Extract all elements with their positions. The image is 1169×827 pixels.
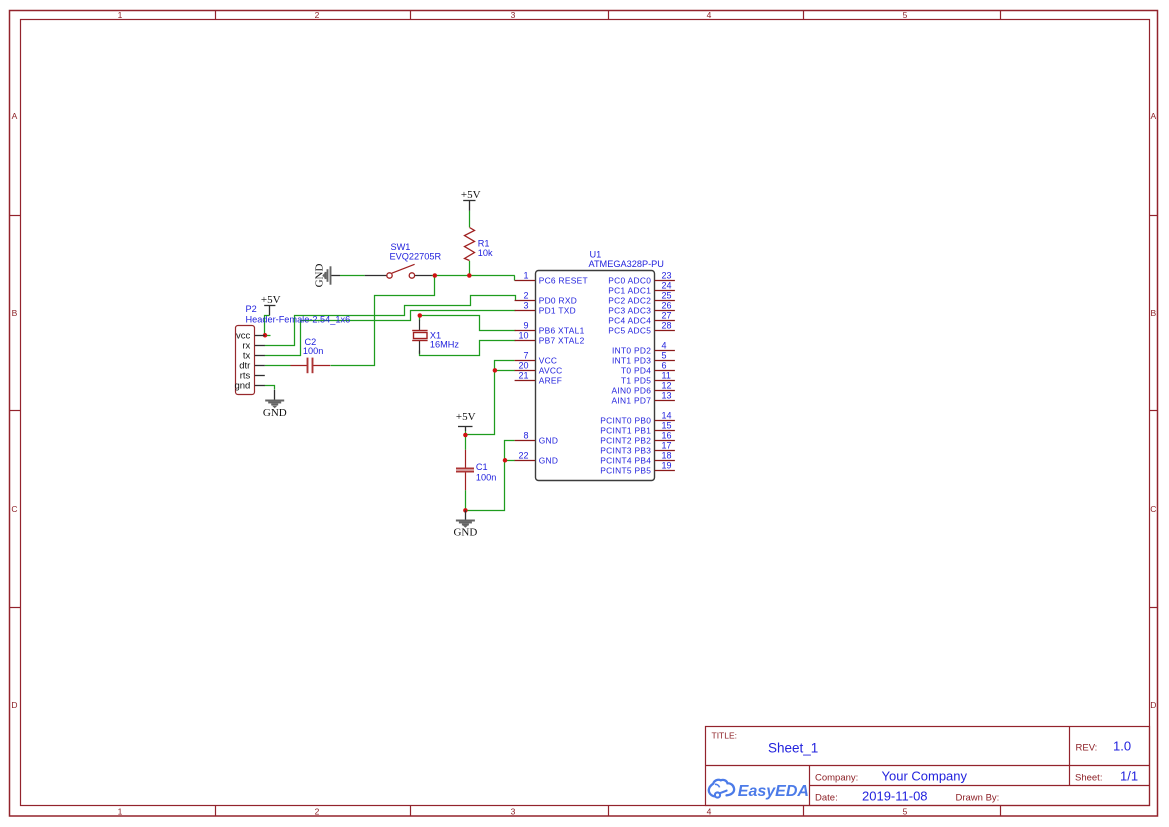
svg-text:Drawn By:: Drawn By:	[956, 793, 1000, 804]
svg-text:C1: C1	[476, 462, 488, 472]
svg-text:26: 26	[662, 301, 672, 311]
U1 pin 9 PB6 XTAL1	[515, 321, 585, 336]
svg-text:INT1 PD3: INT1 PD3	[612, 355, 651, 365]
svg-text:15: 15	[662, 421, 672, 431]
svg-text:VCC: VCC	[539, 355, 558, 365]
svg-text:GND: GND	[539, 455, 559, 465]
svg-text:4: 4	[662, 341, 667, 351]
svg-text:EasyEDA: EasyEDA	[738, 783, 809, 800]
svg-text:2: 2	[523, 291, 528, 301]
U1 pin 18 PCINT4 PB4	[600, 451, 675, 466]
svg-text:7: 7	[523, 351, 528, 361]
U1 pin 23 PC0 ADC0	[608, 271, 675, 286]
ground GND (below C1)	[453, 510, 477, 538]
svg-text:PC4 ADC4: PC4 ADC4	[608, 315, 651, 325]
svg-text:PC2 ADC2: PC2 ADC2	[608, 295, 651, 305]
resistor R1 10k	[465, 228, 494, 261]
svg-text:PC3 ADC3: PC3 ADC3	[608, 305, 651, 315]
U1 pin 28 PC5 ADC5	[608, 321, 675, 336]
U1 pin 16 PCINT2 PB2	[600, 431, 675, 446]
svg-text:4: 4	[707, 807, 712, 817]
EasyEDA logo	[709, 780, 809, 800]
wire: crystal bottom to PB7 XTAL2 (pin 10)	[420, 341, 516, 356]
wire: P2 gnd to GND	[265, 386, 275, 390]
svg-text:A: A	[12, 111, 18, 121]
svg-text:100n: 100n	[476, 472, 496, 482]
svg-text:28: 28	[662, 321, 672, 331]
svg-text:PC0 ADC0: PC0 ADC0	[608, 275, 651, 285]
title block values	[768, 739, 1138, 804]
switch SW1 EVQ22705R	[365, 242, 442, 278]
junction: crystal top node	[418, 313, 423, 318]
U1 pin 4 INT0 PD2	[612, 341, 675, 356]
svg-text:16: 16	[662, 431, 672, 441]
svg-text:Date:: Date:	[815, 793, 838, 804]
svg-text:18: 18	[662, 451, 672, 461]
svg-text:12: 12	[662, 381, 672, 391]
U1 pin 5 INT1 PD3	[612, 351, 675, 366]
wire: R1 bottom to RESET net	[469, 261, 471, 276]
svg-text:P2: P2	[246, 304, 257, 314]
power +5V (above C1)	[456, 411, 476, 431]
svg-text:1.0: 1.0	[1113, 739, 1131, 754]
svg-text:Your Company: Your Company	[882, 769, 968, 784]
svg-text:+5V: +5V	[456, 411, 476, 423]
svg-text:4: 4	[707, 10, 712, 20]
svg-text:3: 3	[523, 301, 528, 311]
svg-text:PCINT4 PB4: PCINT4 PB4	[600, 455, 651, 465]
svg-text:9: 9	[523, 321, 528, 331]
svg-text:AREF: AREF	[539, 375, 563, 385]
svg-text:Sheet_1: Sheet_1	[768, 740, 818, 755]
svg-text:14: 14	[662, 411, 672, 421]
wire: RESET net (switch/R1 to pin 1)	[340, 276, 515, 281]
U1 pin 3 PD1 TXD	[515, 301, 576, 316]
svg-text:D: D	[11, 700, 17, 710]
svg-text:B: B	[12, 308, 18, 318]
svg-text:GND: GND	[453, 527, 477, 539]
svg-text:GND: GND	[313, 264, 325, 288]
svg-text:INT0 PD2: INT0 PD2	[612, 345, 651, 355]
svg-text:23: 23	[662, 271, 672, 281]
wire: P2 vcc to +5V	[265, 316, 271, 336]
svg-text:U1: U1	[590, 250, 602, 260]
capacitor C1 100n	[456, 450, 496, 490]
svg-text:AIN0 PD6: AIN0 PD6	[612, 385, 652, 395]
svg-text:21: 21	[518, 371, 528, 381]
svg-text:PCINT3 PB3: PCINT3 PB3	[600, 445, 651, 455]
svg-text:AVCC: AVCC	[539, 365, 563, 375]
ground GND (below P2 gnd)	[263, 390, 287, 419]
U1 pin 15 PCINT1 PB1	[600, 421, 675, 436]
junction: pin22 GND node	[503, 458, 508, 463]
svg-text:PC6 RESET: PC6 RESET	[539, 275, 588, 285]
junction: switch/C2 node	[433, 273, 438, 278]
svg-text:ATMEGA328P-PU: ATMEGA328P-PU	[589, 259, 664, 269]
svg-text:100n: 100n	[303, 346, 323, 356]
svg-text:20: 20	[518, 361, 528, 371]
U1 pin 27 PC4 ADC4	[608, 311, 675, 326]
junction: P2 vcc +5V node	[263, 333, 268, 338]
svg-text:10k: 10k	[478, 248, 493, 258]
U1 pin 20 AVCC	[515, 361, 563, 376]
connector P2 Header-Female-2.54_1x6	[234, 304, 350, 394]
U1 pin 25 PC2 ADC2	[608, 291, 675, 306]
svg-text:PCINT1 PB1: PCINT1 PB1	[600, 425, 651, 435]
svg-text:REV:: REV:	[1076, 743, 1098, 754]
svg-text:8: 8	[523, 431, 528, 441]
svg-text:C: C	[11, 504, 17, 514]
U1 pin 13 AIN1 PD7	[612, 391, 675, 406]
svg-text:2: 2	[315, 10, 320, 20]
svg-text:D: D	[1150, 700, 1156, 710]
svg-text:Sheet:: Sheet:	[1075, 773, 1102, 784]
wire: P2 tx to PD1 TXD (pin 3)	[265, 311, 516, 356]
U1 pin 7 VCC	[515, 351, 558, 366]
U1 pin 17 PCINT3 PB3	[600, 441, 675, 456]
op IC U1 ATMEGA328P-PU	[536, 250, 664, 481]
wire: R1 top to +5V	[469, 211, 471, 228]
svg-text:10: 10	[518, 331, 528, 341]
svg-text:PC1 ADC1: PC1 ADC1	[608, 285, 651, 295]
junction: AVCC node	[493, 368, 498, 373]
U1 pin 10 PB7 XTAL2	[515, 331, 585, 346]
wire: VCC/AVCC to +5V	[466, 361, 515, 436]
svg-text:SW1: SW1	[391, 242, 411, 252]
svg-text:5: 5	[903, 10, 908, 20]
svg-text:PD1 TXD: PD1 TXD	[539, 305, 576, 315]
svg-text:C: C	[1150, 504, 1156, 514]
wire: switch junction down to C2/DTR	[331, 276, 435, 366]
svg-text:T0 PD4: T0 PD4	[621, 365, 651, 375]
power +5V (above R1)	[461, 189, 481, 211]
crystal X1 16MHz	[412, 320, 459, 354]
svg-text:PC5 ADC5: PC5 ADC5	[608, 325, 651, 335]
svg-text:Company:: Company:	[815, 773, 858, 784]
U1 pin 1 PC6 RESET	[515, 271, 588, 286]
svg-text:5: 5	[903, 807, 908, 817]
junction: R1/RESET node	[467, 273, 472, 278]
svg-text:13: 13	[662, 391, 672, 401]
svg-text:17: 17	[662, 441, 672, 451]
svg-text:1: 1	[118, 10, 123, 20]
svg-text:R1: R1	[478, 238, 490, 248]
svg-text:3: 3	[511, 807, 516, 817]
U1 pin 2 PD0 RXD	[515, 291, 578, 306]
title block	[706, 727, 1150, 806]
svg-text:1: 1	[523, 271, 528, 281]
svg-text:1: 1	[118, 807, 123, 817]
U1 pin 22 GND	[515, 451, 559, 466]
svg-text:PB6 XTAL1: PB6 XTAL1	[539, 325, 585, 335]
U1 pin 19 PCINT5 PB5	[600, 461, 675, 476]
svg-text:27: 27	[662, 311, 672, 321]
wire: GND net to pins 8 and 22	[466, 441, 515, 511]
U1 pin 21 AREF	[515, 371, 563, 386]
junction: +5V / C1 top node	[463, 433, 468, 438]
U1 pin 11 T1 PD5	[621, 371, 675, 386]
U1 pin 6 T0 PD4	[621, 361, 675, 376]
wire: crystal top to PB6 XTAL1 (pin 9)	[420, 316, 516, 331]
U1 pin 26 PC3 ADC3	[608, 301, 675, 316]
svg-text:GND: GND	[539, 435, 559, 445]
svg-text:A: A	[1150, 111, 1156, 121]
ground GND (left of SW1, rotated)	[313, 264, 340, 288]
svg-text:6: 6	[662, 361, 667, 371]
svg-text:PCINT0 PB0: PCINT0 PB0	[600, 415, 651, 425]
svg-text:19: 19	[662, 461, 672, 471]
svg-text:EVQ22705R: EVQ22705R	[390, 252, 442, 262]
svg-text:22: 22	[518, 451, 528, 461]
svg-text:2019-11-08: 2019-11-08	[862, 789, 928, 804]
power +5V (above P2 vcc)	[261, 294, 281, 315]
svg-text:5: 5	[662, 351, 667, 361]
svg-text:gnd: gnd	[234, 381, 250, 392]
svg-text:+5V: +5V	[461, 189, 481, 201]
svg-text:PD0 RXD: PD0 RXD	[539, 295, 577, 305]
capacitor C2 100n	[291, 337, 331, 373]
U1 pin 12 AIN0 PD6	[612, 381, 675, 396]
svg-text:24: 24	[662, 281, 672, 291]
wire: C1 bottom to GND junction	[465, 490, 467, 510]
svg-text:1/1: 1/1	[1120, 769, 1138, 784]
svg-text:T1 PD5: T1 PD5	[621, 375, 651, 385]
U1 pin 8 GND	[515, 431, 559, 446]
svg-text:3: 3	[511, 10, 516, 20]
svg-text:AIN1 PD7: AIN1 PD7	[612, 395, 652, 405]
junction: C1 bottom GND node	[463, 508, 468, 513]
svg-text:+5V: +5V	[261, 294, 281, 306]
svg-text:Header-Female-2.54_1x6: Header-Female-2.54_1x6	[246, 315, 351, 325]
svg-text:PB7 XTAL2: PB7 XTAL2	[539, 335, 585, 345]
svg-text:16MHz: 16MHz	[430, 340, 460, 350]
svg-text:25: 25	[662, 291, 672, 301]
wire: +5V junction down to C1 top	[465, 435, 467, 450]
title block labels	[712, 730, 1103, 803]
svg-text:TITLE:: TITLE:	[712, 730, 738, 740]
U1 pin 24 PC1 ADC1	[608, 281, 675, 296]
wire: P2 rx to PD0 RXD (pin 2)	[265, 296, 516, 346]
svg-text:GND: GND	[263, 407, 287, 419]
svg-text:PCINT2 PB2: PCINT2 PB2	[600, 435, 651, 445]
svg-text:B: B	[1150, 308, 1156, 318]
U1 pin 14 PCINT0 PB0	[600, 411, 675, 426]
svg-text:11: 11	[662, 371, 671, 381]
svg-text:2: 2	[315, 807, 320, 817]
wire: P2 dtr to C2 left lead	[265, 365, 291, 367]
svg-text:PCINT5 PB5: PCINT5 PB5	[600, 465, 651, 475]
